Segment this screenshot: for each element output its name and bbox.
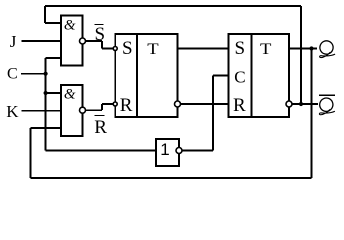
svg-text:1: 1 [160, 140, 169, 159]
svg-text:R: R [94, 117, 107, 138]
svg-text:T: T [147, 41, 159, 58]
svg-text:R: R [233, 95, 246, 116]
svg-text:S: S [95, 24, 106, 45]
svg-text:K: K [6, 102, 19, 121]
svg-text:J: J [10, 32, 17, 51]
svg-text:&: & [64, 17, 76, 33]
svg-text:R: R [120, 95, 133, 116]
svg-text:S: S [235, 38, 246, 59]
svg-text:T: T [260, 41, 272, 58]
svg-text:C: C [234, 67, 245, 86]
svg-text:C: C [7, 66, 18, 83]
svg-text:S: S [122, 38, 133, 59]
svg-text:&: & [64, 86, 76, 102]
